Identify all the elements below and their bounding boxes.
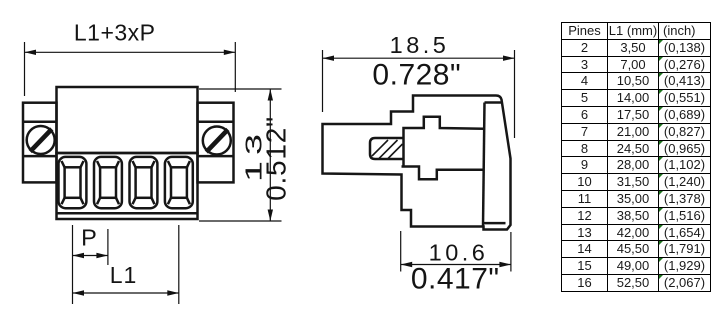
side view latch left edge: [483, 103, 506, 227]
dim P: [73, 225, 108, 304]
svg-text:0.512": 0.512": [261, 116, 292, 201]
front view top housing body: [57, 87, 198, 153]
dimension lines: [25, 42, 515, 304]
svg-text:0.417": 0.417": [411, 263, 500, 296]
dimension labels: [74, 20, 500, 296]
right flange: [198, 103, 234, 183]
dim 18.5 / 0.728": [323, 50, 515, 138]
front view bottom strip line: [57, 212, 198, 215]
front view lower body: [57, 153, 198, 219]
svg-text:P: P: [81, 225, 97, 251]
svg-text:18.5: 18.5: [390, 32, 450, 58]
label L1+3xP: [74, 20, 156, 46]
dim L1: [73, 225, 179, 304]
left flange: [23, 103, 57, 183]
side view outer outline: [323, 96, 511, 230]
contact opening 1: [59, 157, 87, 208]
label 0.512": [261, 116, 292, 201]
label 18.5: [390, 32, 450, 58]
data table Pines / L1 / inch: [561, 22, 711, 292]
dim 13 / 0.512": [199, 89, 282, 221]
contact opening 3: [130, 157, 158, 208]
label L1: [110, 262, 138, 288]
label 13: [241, 134, 267, 182]
side view pin (hatched): [370, 138, 404, 159]
label P: [81, 225, 97, 251]
right flange screw: [203, 127, 231, 155]
label 0.728": [372, 59, 461, 92]
svg-text:L1: L1: [110, 262, 138, 288]
dim 10.6 / 0.417": [401, 231, 511, 272]
svg-text:L1+3xP: L1+3xP: [74, 20, 156, 46]
side view contact carrier cross: [402, 117, 484, 180]
contact opening 2: [94, 157, 122, 208]
label 0.417": [411, 263, 500, 296]
left flange screw: [27, 126, 55, 154]
contact opening 4: [165, 157, 193, 208]
svg-text:0.728": 0.728": [372, 59, 461, 92]
label 10.6: [429, 240, 489, 266]
dim L1+3xP: [25, 42, 236, 96]
